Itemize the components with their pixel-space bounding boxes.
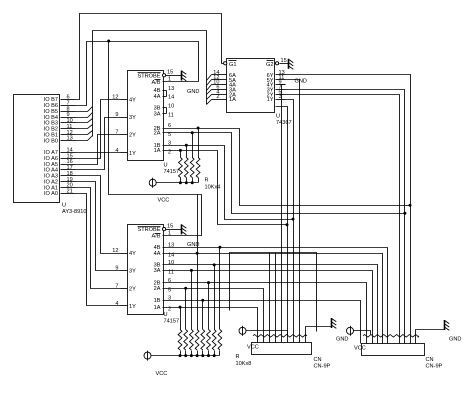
pin 19 IO A2 of AY3-8910 xyxy=(61,181,76,183)
wire AY pin21 IO A0 to mux2 1Y xyxy=(76,194,121,306)
74367 output 6Y pin 13 xyxy=(276,74,286,76)
wire mux2 1B to CN2 box xyxy=(163,301,361,344)
svg-text:1A: 1A xyxy=(154,148,161,154)
wire resistor R2-8 bottom xyxy=(219,351,221,356)
CN1 pin 4 xyxy=(275,253,277,343)
mux1 output 2Y pin 7 xyxy=(121,134,128,136)
wire resistor R1-1 top to mux1 1A xyxy=(180,151,182,158)
svg-text:10: 10 xyxy=(168,260,174,266)
wire mux2 2A to CN1 pin2 xyxy=(163,289,264,336)
junction mux1 1B to 74367 1Y net xyxy=(292,218,295,221)
resistor R2 element 2 xyxy=(184,330,188,351)
CN1 pin 7 xyxy=(293,336,295,343)
wire mux1 1Y net drop to mux2 4A line xyxy=(197,195,199,254)
VCC power symbol at CN1 xyxy=(239,326,246,336)
svg-text:10Kx4: 10Kx4 xyxy=(205,185,221,191)
wire 74367 3Y pin7 to connector CN2 pin7 xyxy=(286,90,405,336)
ground chassis at 74367 G2 xyxy=(289,59,294,69)
pin 21 IO A0 of AY3-8910 xyxy=(61,193,76,195)
VCC rail of R1 xyxy=(157,182,199,184)
svg-text:G2: G2 xyxy=(266,62,273,68)
svg-text:R: R xyxy=(236,354,240,360)
pin 10 IO B3 of AY3-8910 xyxy=(61,122,76,124)
svg-text:13: 13 xyxy=(168,86,174,92)
ground chassis at CN2 xyxy=(445,320,450,330)
bus entry to 74367 4A xyxy=(207,85,212,91)
svg-text:CN-9P: CN-9P xyxy=(426,364,443,370)
bus entry to 74367 1A xyxy=(207,100,212,105)
wire resistor R2-7 top to mux2 3B xyxy=(214,265,216,330)
svg-text:CN: CN xyxy=(314,357,322,363)
svg-text:STROBE: STROBE xyxy=(137,73,160,79)
svg-text:1Y: 1Y xyxy=(129,304,136,310)
wire AY pin13 B0 bus entry xyxy=(76,136,93,141)
CN1 pin 3 xyxy=(269,253,271,343)
junction R2 rail xyxy=(190,354,193,357)
junction R2-6 at mux2 2B line xyxy=(207,281,210,284)
pin 13 IO B0 of AY3-8910 xyxy=(61,140,76,142)
wire 74367 2Y pin5 to connector CN2 pin6 xyxy=(286,95,400,336)
svg-text:U: U xyxy=(164,312,168,318)
svg-text:21: 21 xyxy=(67,189,73,195)
svg-text:IO A0: IO A0 xyxy=(44,191,58,197)
svg-text:A/B: A/B xyxy=(151,234,160,240)
wire mux2 1A to CN1 pin1 xyxy=(163,308,258,336)
svg-text:4: 4 xyxy=(115,301,118,307)
svg-text:1Y: 1Y xyxy=(267,97,274,103)
wire 74367 4Y pin9 to connector CN1 pin5 xyxy=(282,85,286,336)
junction R2 rail xyxy=(213,354,216,357)
wire mux2 4A to CN2 pin4 xyxy=(163,254,383,336)
mux2 output 2Y pin 7 xyxy=(121,288,128,290)
svg-text:U: U xyxy=(62,203,66,209)
74367 input 2A pin 4 xyxy=(212,94,227,96)
CN1 pin 8 xyxy=(299,336,301,343)
74367 input 5A pin 12 xyxy=(212,79,227,81)
junction R1 rail xyxy=(179,181,182,184)
wire mux1 1A line xyxy=(163,151,288,225)
VCC power symbol at CN2 xyxy=(347,326,354,336)
junction R1 rail xyxy=(185,181,188,184)
bus entry to 74367 6A xyxy=(207,75,212,81)
svg-text:R: R xyxy=(205,178,209,184)
svg-text:15: 15 xyxy=(167,223,173,229)
CN2 pin 5 xyxy=(387,336,389,344)
junction R1-1 at mux1 1A line xyxy=(179,149,182,152)
wire resistor R2-6 bottom xyxy=(208,351,210,356)
74367 input 3A pin 6 xyxy=(212,89,227,91)
svg-text:CN-9P: CN-9P xyxy=(314,364,331,370)
wire resistor R1-2 bottom xyxy=(186,178,188,183)
svg-text:4Y: 4Y xyxy=(129,98,136,104)
wire ground to CN1 pin9 xyxy=(306,327,332,336)
wire resistor R1-2 top to mux1 1B xyxy=(186,146,188,158)
IC U AY3-8910 sound generator xyxy=(14,95,60,203)
CN1 pin 9 xyxy=(305,336,307,343)
wire AY pin14 IO A7 to mux1 1Y xyxy=(76,152,121,154)
wire mux2 2B to CN2 pin1 xyxy=(163,283,367,336)
wire resistor R2-3 bottom xyxy=(191,351,193,356)
CN2 pin 2 xyxy=(372,336,374,344)
junction R2-5 at mux2 1B line xyxy=(201,299,204,302)
wire AY pin18 IO A3 to mux2 4Y xyxy=(76,176,121,254)
svg-text:3A: 3A xyxy=(154,268,161,274)
svg-text:10: 10 xyxy=(168,103,174,109)
junction R2-4 at mux2 4A line xyxy=(196,252,199,255)
CN1 pin 2 xyxy=(263,336,265,343)
74367 output 1Y pin 3 xyxy=(276,99,286,101)
mux2 output 1Y pin 4 xyxy=(121,305,128,307)
svg-text:11: 11 xyxy=(168,112,174,118)
svg-text:1Y: 1Y xyxy=(129,151,136,157)
pin 11 IO B2 of AY3-8910 xyxy=(61,128,76,130)
CN2 contact row xyxy=(363,335,419,338)
resistor R2 element 7 xyxy=(212,330,216,351)
svg-text:STROBE: STROBE xyxy=(137,227,160,233)
resistor R2 element 1 xyxy=(178,330,182,351)
junction mux1 2B to 74367 6Y net xyxy=(409,204,412,207)
mux2 pin 15 STROBE bubble and stub xyxy=(163,228,166,231)
svg-text:U: U xyxy=(164,163,168,169)
wire resistor R1-1 bottom xyxy=(180,178,182,183)
svg-text:G1: G1 xyxy=(229,62,236,68)
74367 input 6A pin 14 xyxy=(212,74,227,76)
mux1 pin 15 STROBE bubble and stub xyxy=(163,74,166,77)
wire AY pin10 B3 bus entry xyxy=(76,119,93,123)
svg-text:1A: 1A xyxy=(154,305,161,311)
bus entry to 74367 5A xyxy=(207,80,212,86)
svg-text:10Kx8: 10Kx8 xyxy=(236,361,252,367)
resistor R2 element 4 xyxy=(195,330,199,351)
IC U2 74157 bottom multiplexer xyxy=(128,225,164,315)
pin 20 IO A1 of AY3-8910 xyxy=(61,187,76,189)
svg-text:15: 15 xyxy=(167,70,173,76)
connector CN1 body xyxy=(252,343,312,355)
mux1 output 1Y pin 4 xyxy=(121,152,128,154)
VCC power symbol at R1 xyxy=(149,178,156,188)
svg-text:CN: CN xyxy=(426,357,434,363)
junction R2 rail xyxy=(201,354,204,357)
svg-text:VCC: VCC xyxy=(354,346,366,352)
wire AY pin7 B6 select net to mux1 A/B xyxy=(76,42,199,106)
svg-text:GND: GND xyxy=(187,89,199,95)
wire resistor R1-3 bottom xyxy=(192,178,194,183)
resistor R2 element 8 xyxy=(218,330,222,351)
CN2 pin 9 xyxy=(415,336,417,344)
resistor R2 element 5 xyxy=(201,330,205,351)
wire resistor R2-3 top to mux2 3A xyxy=(191,271,193,330)
wire AY pin8 B5 bus entry xyxy=(76,107,93,112)
svg-text:4: 4 xyxy=(115,148,118,154)
ground chassis at mux2 strobe xyxy=(182,224,187,234)
wire resistor R2-1 bottom xyxy=(180,351,182,356)
svg-text:15: 15 xyxy=(281,58,287,64)
svg-text:VCC: VCC xyxy=(156,371,168,377)
mux2 output 3Y pin 9 xyxy=(121,270,128,272)
wire VCC to CN1 xyxy=(247,331,288,335)
svg-text:2Y: 2Y xyxy=(129,133,136,139)
CN2 pin 1 xyxy=(366,336,368,344)
74367 output 3Y pin 7 xyxy=(276,89,286,91)
resistor R2 element 3 xyxy=(190,330,194,351)
svg-text:1B: 1B xyxy=(154,298,161,304)
CN2 pin 3 xyxy=(377,336,379,344)
svg-text:IO B0: IO B0 xyxy=(44,138,58,144)
wire mux1 2B line xyxy=(163,129,411,206)
ground chassis at CN1 xyxy=(332,318,337,328)
wire 74367 6Y pin13 to connector CN2 pin8 xyxy=(286,75,411,336)
svg-text:1A: 1A xyxy=(229,97,236,103)
junction R2 rail xyxy=(196,354,199,357)
mux1 pin 13 4B / pin 14 4A tied xyxy=(163,90,167,92)
bus entry to 74367 2A xyxy=(207,95,212,100)
svg-text:4A: 4A xyxy=(154,94,161,100)
CN1 pin 5 xyxy=(281,336,283,343)
wire stub below 74367 to CN1 pin6 xyxy=(276,107,288,336)
connector CN2 body xyxy=(362,344,425,356)
wire resistor R2-6 top to mux2 2B xyxy=(208,283,210,330)
CN2 pin 4 xyxy=(382,336,384,344)
pin 18 IO A3 of AY3-8910 xyxy=(61,175,76,177)
wire resistor R2-5 top to mux2 1B xyxy=(202,301,204,330)
bus AY B5-B0 to 74367 inputs xyxy=(93,31,207,137)
pin 15 IO A6 of AY3-8910 xyxy=(61,158,76,160)
wire resistor R2-8 top to mux2 4B xyxy=(219,248,221,330)
wire resistor R2-5 bottom xyxy=(202,351,204,356)
mux1 output 4Y pin 12 xyxy=(121,99,128,101)
junction R2 rail xyxy=(184,354,187,357)
svg-text:3Y: 3Y xyxy=(129,269,136,275)
wire AY pin9 B4 bus entry xyxy=(76,113,93,118)
pin 6 IO B7 of AY3-8910 xyxy=(61,99,76,101)
wire AY pin16 IO A5 to mux1 2Y xyxy=(76,135,121,165)
wire 74367 5Y pin11 to connector CN1 pin8 xyxy=(286,80,300,336)
wire mux1 2A line xyxy=(163,133,405,214)
wire 74367 1Y pin3 to connector CN1 pin7 xyxy=(286,100,294,336)
wire mux2 4B to CN2 pin5 xyxy=(163,248,388,336)
svg-text:2Y: 2Y xyxy=(129,286,136,292)
svg-text:13: 13 xyxy=(67,136,73,142)
IC U1 74157 top multiplexer xyxy=(128,71,164,161)
74367 pin 15 stub to ground xyxy=(280,63,289,65)
CN1 pin 1 xyxy=(257,336,259,343)
wire AY pin17 IO A4 to mux1 3Y xyxy=(76,118,121,170)
resistor R1 element 2 xyxy=(184,158,188,178)
VCC power symbol at R2 xyxy=(144,351,151,361)
wire mux2 3A to CN2 pin2 xyxy=(163,271,373,336)
74367 output 5Y pin 11 xyxy=(276,79,286,81)
junction mux1 1A to 74367 4Y net xyxy=(286,223,289,226)
pin 9 IO B4 of AY3-8910 xyxy=(61,117,76,119)
mux1 output 3Y pin 9 xyxy=(121,117,128,119)
svg-text:3A: 3A xyxy=(154,112,161,118)
mux1 pin 10 3B / pin 11 3A tied xyxy=(163,107,167,109)
74367 pin 1 G1 bubble xyxy=(224,62,227,65)
svg-text:4Y: 4Y xyxy=(129,251,136,257)
junction R1-3 at mux1 2A line xyxy=(191,131,194,134)
svg-text:14: 14 xyxy=(168,95,174,101)
wire resistor R2-2 bottom xyxy=(185,351,187,356)
74367 input 4A pin 10 xyxy=(212,84,227,86)
resistor R2 element 6 xyxy=(207,330,211,351)
svg-text:VCC: VCC xyxy=(158,198,170,204)
CN1 pin 6 xyxy=(287,336,289,343)
74367 output 4Y pin 9 xyxy=(276,84,286,86)
wire resistor R2-2 top to mux2 2A xyxy=(185,289,187,330)
svg-text:GND: GND xyxy=(449,337,461,343)
svg-text:U: U xyxy=(276,114,280,120)
IC U3 74367 hex buffer xyxy=(227,59,275,113)
resistor R1 element 4 xyxy=(196,158,200,178)
74367 input 1A pin 2 xyxy=(212,99,227,101)
wire mux2 3B to CN2 pin3 xyxy=(163,265,378,336)
svg-text:4A: 4A xyxy=(154,251,161,257)
junction R1-4 at mux1 2B line xyxy=(197,127,200,130)
wire AY pin12 B1 bus entry xyxy=(76,131,93,135)
pin 16 IO A5 of AY3-8910 xyxy=(61,164,76,166)
wire select net branch to mux2 A/B xyxy=(109,42,202,236)
wire resistor R2-4 bottom xyxy=(197,351,199,356)
CN2 pin 8 xyxy=(410,336,412,344)
pin 7 IO B6 of AY3-8910 xyxy=(61,105,76,107)
wire resistor R2-7 bottom xyxy=(214,351,216,356)
svg-text:VCC: VCC xyxy=(247,345,259,351)
junction R1 rail xyxy=(191,181,194,184)
svg-text:74157: 74157 xyxy=(164,319,180,325)
wire ground to CN2 pin9 xyxy=(416,330,445,336)
svg-text:A/B: A/B xyxy=(151,80,160,86)
pin 14 IO A7 of AY3-8910 xyxy=(61,152,76,154)
bus entry to 74367 3A xyxy=(207,90,212,95)
wire AY pin15 IO A6 to mux1 4Y xyxy=(76,100,121,159)
pin 12 IO B1 of AY3-8910 xyxy=(61,134,76,136)
wire AY pin19 IO A2 to mux2 3Y xyxy=(76,182,121,271)
wire resistor R1-4 top to mux1 2B xyxy=(198,129,200,158)
svg-text:2A: 2A xyxy=(154,286,161,292)
wire resistor R2-1 top to mux2 1A xyxy=(180,308,182,330)
junction R2 rail xyxy=(179,354,182,357)
svg-text:3Y: 3Y xyxy=(129,115,136,121)
VCC rail of R2 xyxy=(152,355,220,357)
pin 17 IO A4 of AY3-8910 xyxy=(61,169,76,171)
junction R2-2 at mux2 2A line xyxy=(184,287,187,290)
wire AY pin6 B7 to 74367 G1 xyxy=(76,14,224,100)
74367 pin 15 G2 bubble xyxy=(276,62,279,65)
junction select net xyxy=(107,40,110,43)
wire resistor R1-3 top to mux1 2A xyxy=(192,133,194,158)
svg-text:2: 2 xyxy=(216,94,219,100)
wire distribution line over CN1 xyxy=(230,253,317,332)
junction R2-3 at mux2 3A line xyxy=(190,269,193,272)
74367 output 2Y pin 5 xyxy=(276,94,286,96)
CN2 pin 7 xyxy=(404,336,406,344)
wire VCC to CN2 xyxy=(354,331,371,335)
CN1 contact row xyxy=(253,335,307,338)
resistor R1 element 3 xyxy=(190,158,194,178)
ground chassis at mux1 strobe xyxy=(182,71,187,81)
mux2 output 4Y pin 12 xyxy=(121,253,128,255)
CN2 pin 6 xyxy=(399,336,401,344)
junction R2 rail xyxy=(207,354,210,357)
svg-text:74367: 74367 xyxy=(276,120,292,126)
junction R1-2 at mux1 1B line xyxy=(185,144,188,147)
wire mux1 1B line xyxy=(163,146,294,220)
svg-text:2A: 2A xyxy=(154,131,161,137)
wire AY pin20 IO A1 to mux2 2Y xyxy=(76,188,121,289)
junction R2-8 at mux2 4B line xyxy=(218,246,221,249)
svg-text:74157: 74157 xyxy=(164,169,180,175)
svg-text:AY3-8910: AY3-8910 xyxy=(62,209,86,215)
junction mux1 2A to 74367 3Y net xyxy=(403,212,406,215)
resistor R1 element 1 xyxy=(179,158,183,178)
wire resistor R2-4 top to mux2 4A xyxy=(197,254,199,330)
junction R2-7 at mux2 3B line xyxy=(213,263,216,266)
junction R2-1 at mux2 1A line xyxy=(179,306,182,309)
wire resistor R1-4 bottom xyxy=(198,178,200,183)
wire AY pin11 B2 bus entry xyxy=(76,125,93,129)
svg-text:GND: GND xyxy=(336,337,348,343)
pin 8 IO B5 of AY3-8910 xyxy=(61,111,76,113)
